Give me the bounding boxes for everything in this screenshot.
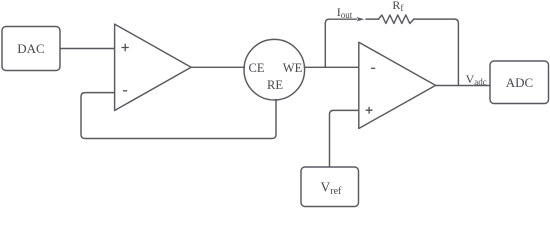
svg-text:RE: RE bbox=[267, 78, 283, 92]
svg-text:Rf: Rf bbox=[392, 0, 403, 13]
svg-text:DAC: DAC bbox=[17, 41, 44, 56]
svg-text:CE: CE bbox=[249, 61, 265, 75]
svg-text:WE: WE bbox=[283, 61, 303, 75]
svg-text:ADC: ADC bbox=[506, 75, 533, 90]
